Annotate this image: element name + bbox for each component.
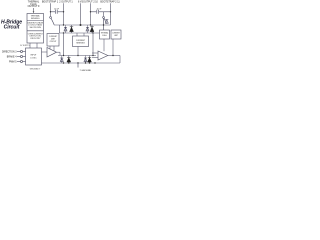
svg-text:SENSING: SENSING bbox=[31, 18, 40, 20]
node THERMAL FLAG OUTPUT pin 9 label bbox=[28, 0, 40, 8]
svg-text:10 nF: 10 nF bbox=[97, 8, 103, 10]
switch S2 upper-right bbox=[103, 17, 107, 31]
block current limit D bbox=[111, 30, 121, 39]
diode D4 upper-right filled bbox=[90, 25, 94, 33]
wire bottom rail bbox=[42, 62, 121, 64]
op-amp sense amplifier bbox=[47, 48, 57, 58]
diode D9 beside S2 bbox=[105, 20, 108, 24]
wire rail mid lower bbox=[60, 32, 100, 34]
svg-text:2 OUTPUT 1: 2 OUTPUT 1 bbox=[59, 2, 73, 4]
diode D7 lower-right small bbox=[84, 56, 87, 64]
svg-text:5V SUPPLY: 5V SUPPLY bbox=[20, 45, 30, 47]
svg-text:INPUT: INPUT bbox=[31, 55, 38, 57]
node lower rail junctions bbox=[63, 55, 64, 56]
wire VS supply column bbox=[80, 3, 82, 25]
op-amp sense output amplifier bbox=[103, 39, 105, 51]
block U1 thermal/undervoltage/overcurrent (tall box) bbox=[27, 14, 44, 44]
wire left column down bbox=[63, 33, 65, 56]
diode D5 lower-left small bbox=[60, 56, 63, 64]
wire bootstrap2 column bbox=[110, 3, 112, 25]
diode D6 lower-left filled bbox=[67, 56, 71, 64]
svg-text:7 GROUND: 7 GROUND bbox=[80, 70, 92, 72]
wire thermal flag stub with arrow bbox=[33, 8, 35, 12]
block current limit A bbox=[47, 34, 59, 47]
wire right column down bbox=[92, 33, 94, 56]
wire lower mid rail bbox=[58, 55, 96, 57]
diode D8 lower-right filled bbox=[88, 56, 92, 64]
wire output2 column bbox=[90, 3, 92, 25]
svg-text:CIRCUITRY: CIRCUITRY bbox=[30, 38, 41, 40]
svg-text:CIRCUIT: CIRCUIT bbox=[50, 41, 57, 43]
diode D2 upper-left filled bbox=[70, 25, 74, 33]
node junctions on rails bbox=[63, 24, 64, 25]
wire switch S2 feed bbox=[103, 12, 105, 17]
title H-Bridge Circuit bbox=[1, 20, 22, 31]
block thermal flag C bbox=[100, 30, 110, 39]
svg-text:OUTPUT 2 10: OUTPUT 2 10 bbox=[83, 2, 98, 4]
input pin BRAKE 4 bbox=[17, 55, 26, 57]
svg-text:PWM 5: PWM 5 bbox=[9, 62, 17, 64]
svg-text:LIMIT: LIMIT bbox=[114, 35, 118, 37]
node C2 junctions bbox=[90, 11, 91, 12]
diode D1 upper-left small bbox=[64, 25, 67, 33]
svg-text:OUTPUT 9: OUTPUT 9 bbox=[28, 5, 40, 8]
svg-text:SENSING: SENSING bbox=[76, 42, 85, 44]
svg-text:CURRENT: CURRENT bbox=[112, 33, 120, 35]
svg-text:SHUTDOWN: SHUTDOWN bbox=[29, 27, 41, 29]
svg-text:LOGIC: LOGIC bbox=[30, 57, 37, 59]
svg-text:BRAKE 4: BRAKE 4 bbox=[7, 56, 17, 59]
wire output1 column bbox=[63, 3, 65, 25]
input pin PWM 5 bbox=[17, 60, 26, 62]
input pin DIRECTION 3 bbox=[17, 50, 26, 52]
block current sensing B bbox=[77, 33, 84, 36]
wire left link vertical bbox=[59, 25, 61, 33]
svg-text:Circuit: Circuit bbox=[4, 25, 20, 31]
wire rail mid upper (VS rail) bbox=[54, 24, 111, 26]
switch S1 upper-left bbox=[50, 17, 54, 26]
top pin labels bbox=[42, 1, 120, 4]
diode D3 upper-right small bbox=[86, 25, 89, 33]
ground bbox=[77, 63, 79, 68]
svg-text:BOOTSTRAP 2 11: BOOTSTRAP 2 11 bbox=[100, 1, 120, 4]
node C1 junctions bbox=[50, 11, 51, 12]
svg-text:BOOTSTRAP 1: BOOTSTRAP 1 bbox=[42, 1, 59, 4]
svg-text:DIRECTION 3: DIRECTION 3 bbox=[2, 52, 17, 54]
svg-text:GROUND 7: GROUND 7 bbox=[30, 69, 41, 71]
wire bootstrap1 pin column bbox=[50, 3, 52, 16]
wire input logic outputs bbox=[42, 51, 48, 53]
